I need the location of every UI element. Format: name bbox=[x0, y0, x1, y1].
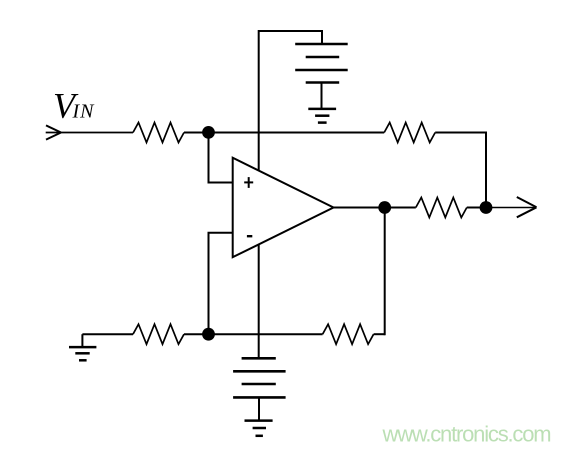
ground bottom-middle bbox=[245, 421, 273, 436]
ground top bbox=[308, 109, 336, 123]
wire op-amp output to node C bbox=[334, 207, 385, 209]
wire R1 to node A bbox=[184, 132, 209, 134]
wire node A to op-amp plus input bbox=[209, 133, 233, 183]
battery V2 bbox=[233, 358, 286, 420]
wire output node down to bottom-right corner bbox=[384, 208, 386, 336]
resistor R4 bbox=[323, 324, 374, 344]
wire VIN to R1 bbox=[46, 132, 133, 134]
svg-text:IN: IN bbox=[72, 101, 96, 123]
node D junction dot bbox=[480, 201, 493, 214]
op-amp U1 bbox=[233, 158, 334, 258]
svg-text:www.cntronics.com: www.cntronics.com bbox=[382, 422, 551, 447]
input port arrow bbox=[46, 125, 61, 139]
wire node D to output arrow bbox=[486, 207, 536, 209]
resistor R3 bbox=[133, 324, 184, 344]
resistor R1 bbox=[133, 123, 184, 143]
wire R5 to node D bbox=[467, 207, 486, 209]
wire node B to R4 bbox=[209, 333, 323, 335]
output port arrow bbox=[517, 197, 537, 217]
wire node C to R5 bbox=[385, 207, 416, 209]
ground bottom-left bbox=[69, 334, 96, 360]
wire top-right corner down to output node bbox=[485, 132, 487, 208]
battery V1 bbox=[295, 44, 348, 109]
wire node B to op-amp minus input bbox=[209, 233, 233, 334]
wire R2 to top-right corner bbox=[435, 132, 486, 134]
resistor R2 bbox=[384, 123, 435, 143]
wire R4 to bottom-right corner bbox=[374, 333, 385, 335]
power rail vertical wire bbox=[258, 30, 260, 358]
wire R3 to node B bbox=[184, 333, 209, 335]
node VIN label bbox=[53, 86, 95, 126]
wire ground to R3 bbox=[82, 333, 133, 335]
wire node A to R2 bbox=[209, 132, 385, 134]
power rail top wire bbox=[259, 31, 322, 44]
node A junction dot bbox=[202, 126, 215, 139]
node C junction dot bbox=[378, 201, 391, 214]
resistor R5 bbox=[416, 198, 467, 218]
node B junction dot bbox=[202, 328, 215, 341]
